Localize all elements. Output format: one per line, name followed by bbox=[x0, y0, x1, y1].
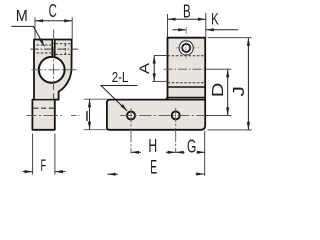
left view base top edge bbox=[32, 99, 58, 101]
label G bbox=[187, 136, 196, 156]
label B bbox=[183, 2, 191, 22]
leader M bbox=[11, 26, 44, 46]
dimension B line with arrows bbox=[168, 18, 206, 21]
svg-text:E: E bbox=[150, 158, 157, 179]
screw axis center line (M) bbox=[31, 48, 79, 50]
svg-text:2-L: 2-L bbox=[112, 69, 129, 86]
svg-text:C: C bbox=[49, 1, 57, 21]
dimension I line with arrows bbox=[88, 99, 91, 130]
left view clamp body outline bbox=[32, 40, 71, 130]
dimension A line with arrows bbox=[153, 56, 156, 82]
bottom hole 1 bbox=[127, 112, 135, 120]
dimension F extension lines bbox=[33, 134, 55, 175]
label H bbox=[148, 136, 157, 156]
dimension K left arrow bbox=[173, 28, 187, 31]
svg-text:J: J bbox=[231, 86, 248, 97]
dimension I extension lines bbox=[84, 99, 108, 130]
holes center line bbox=[120, 114, 231, 116]
dimension H line with arrows bbox=[131, 151, 176, 154]
dimension F line with outside arrows bbox=[23, 170, 66, 173]
label M bbox=[16, 8, 28, 25]
dimension B extension lines bbox=[168, 13, 206, 37]
right view vertical plate bbox=[168, 38, 206, 100]
plate step line upper bbox=[168, 86, 206, 88]
clamp slit bbox=[51, 40, 55, 58]
base hidden hole row bbox=[34, 107, 54, 109]
svg-text:G: G bbox=[187, 136, 196, 156]
dimension E right extension line bbox=[204, 131, 206, 176]
svg-text:I: I bbox=[85, 108, 89, 125]
counterbore hole inner bbox=[182, 44, 190, 52]
dimension C line with arrows bbox=[35, 19, 72, 22]
label E bbox=[150, 158, 157, 179]
label 2-L bbox=[112, 69, 129, 86]
bore axis center line (right view) bbox=[164, 68, 232, 70]
dimension A extension lines bbox=[152, 56, 167, 82]
bore vertical center line bbox=[53, 30, 55, 100]
plate step line lower bbox=[168, 96, 206, 98]
dimension J line with arrows bbox=[247, 38, 250, 130]
right view base plate bbox=[107, 100, 205, 130]
base center line bbox=[27, 114, 80, 116]
leader 2-L bbox=[101, 86, 137, 112]
hole 2 vertical center line bbox=[175, 108, 177, 153]
label J (rotated) bbox=[231, 86, 248, 97]
svg-text:M: M bbox=[16, 8, 28, 25]
label D (rotated) bbox=[210, 83, 227, 98]
dimension G extension and arrows bbox=[176, 151, 205, 154]
dimension K right tail with arrow bbox=[206, 28, 239, 31]
dimension E right arrow stub bbox=[196, 172, 205, 175]
hidden bore bottom row (right view) bbox=[168, 82, 206, 84]
hidden counterbore right rows bbox=[56, 44, 71, 55]
label I bbox=[85, 108, 89, 125]
counterbore h center line bbox=[176, 47, 201, 49]
svg-text:A: A bbox=[136, 62, 152, 74]
bore hole (left view big circle) bbox=[39, 57, 65, 83]
dimension J extension lines bbox=[208, 38, 252, 130]
counterbore hole outer bbox=[179, 41, 193, 55]
svg-text:B: B bbox=[183, 2, 191, 22]
svg-text:K: K bbox=[211, 10, 219, 29]
counterbore v center line bbox=[185, 27, 187, 60]
dimension C extension lines bbox=[35, 17, 72, 39]
bore horizontal center line bbox=[32, 69, 77, 71]
label K bbox=[211, 10, 219, 29]
svg-text:H: H bbox=[148, 136, 157, 156]
bottom hole 2 bbox=[172, 111, 180, 119]
label A (rotated) bbox=[136, 62, 152, 74]
hole 1 vertical center line bbox=[130, 108, 132, 153]
hidden bore top row (right view) bbox=[168, 55, 206, 57]
dimension E left arrow stub bbox=[108, 173, 118, 176]
label C bbox=[49, 1, 57, 21]
svg-text:D: D bbox=[210, 83, 227, 98]
hidden tapped hole left rows bbox=[37, 45, 52, 53]
label F bbox=[41, 156, 47, 175]
dimension D line with arrows bbox=[226, 69, 229, 115]
weld step left edge bbox=[166, 97, 167, 99]
svg-text:F: F bbox=[41, 156, 47, 175]
